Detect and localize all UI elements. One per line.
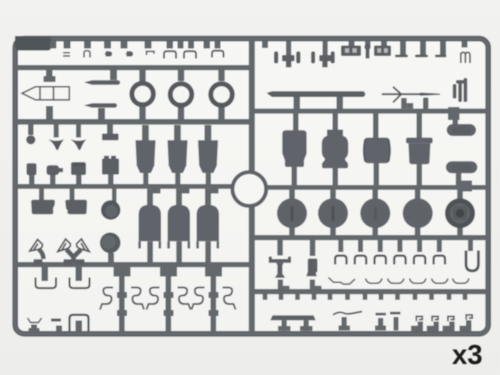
wheel stubs bottom	[289, 227, 295, 236]
upper bucket stubs	[142, 125, 149, 141]
stubs above rings	[139, 70, 145, 81]
stubs below barrel	[294, 97, 301, 110]
part: wye link	[67, 250, 82, 263]
part: flat bar	[102, 134, 119, 141]
part: pin-trio 2	[311, 51, 335, 67]
part: fuel tank B	[322, 130, 348, 169]
part: mud flap 2	[65, 200, 87, 214]
part: corner bracket	[147, 51, 155, 55]
part: blade 1	[84, 80, 120, 85]
rail6 right	[251, 289, 487, 294]
part: stowage box	[406, 138, 433, 144]
part: post pair	[453, 78, 467, 102]
part: hook clip 3	[448, 316, 454, 321]
part: drum	[364, 138, 390, 164]
part: long plank	[270, 315, 315, 320]
part: clamp 3	[212, 51, 224, 58]
part: bracket bird 3	[77, 239, 90, 252]
part: dot	[26, 135, 35, 144]
junction bosses on rail4 left	[152, 187, 161, 194]
part: road wheel small 1	[101, 200, 120, 219]
part: pillar	[308, 259, 318, 273]
rail3 left	[15, 119, 253, 125]
stub above chevron 2	[76, 124, 81, 138]
mini vertical rail 2	[166, 267, 172, 333]
part: u-shackle	[466, 250, 478, 270]
part: capsule 1	[447, 124, 476, 136]
part: fuel tank A	[282, 130, 306, 167]
part: hook clip 4	[466, 315, 472, 320]
part: small lug 1	[104, 51, 113, 56]
rail5 left	[15, 262, 253, 267]
part: gun barrel	[267, 91, 366, 97]
part: box 3	[71, 162, 86, 175]
part: track link 1	[341, 46, 361, 57]
gate stub with foot below rail2	[46, 70, 53, 77]
step blocks on bottom rail	[411, 322, 423, 332]
part: capsule 2	[446, 161, 477, 173]
clamp stubs	[338, 240, 473, 252]
feet under plank	[282, 320, 287, 331]
gate stubs from top rail (right)	[286, 41, 291, 57]
part: road wheel 1	[277, 198, 307, 228]
part: mud flap 1	[31, 200, 55, 214]
stub for pillar	[310, 240, 316, 256]
part: small lug 2	[125, 51, 134, 56]
part: ring 1	[132, 83, 154, 105]
wheel stubs top	[289, 190, 295, 200]
sprue outer frame	[15, 39, 488, 334]
stub below blade 2	[98, 108, 105, 120]
part: upper bucket 2	[168, 140, 188, 173]
part: bracket bird 1	[30, 240, 43, 252]
part: blade 2	[84, 103, 117, 107]
part: dash 2	[415, 55, 428, 58]
part: road wheel 4	[403, 198, 433, 228]
feet above rail6	[278, 280, 283, 291]
stub below capsule 2	[456, 173, 462, 187]
stub above bar part	[107, 124, 113, 134]
part: tiny box	[27, 163, 37, 175]
frame inner edge line	[15, 39, 488, 334]
part: box bracket	[70, 315, 89, 331]
gate stub below torpedo	[46, 106, 53, 120]
part: road wheel 3	[360, 198, 390, 228]
gate stubs below rail6	[263, 294, 468, 300]
part: pin-trio 1	[274, 51, 300, 67]
part: ball pin	[366, 47, 370, 59]
stub for tow bar	[277, 240, 283, 256]
rail2 left	[15, 65, 253, 70]
part: upper bucket 1	[136, 140, 156, 173]
part: ring 2	[170, 84, 192, 106]
mini rail knobs	[117, 292, 219, 316]
part: swept chevron 1	[48, 139, 64, 150]
stubs below rail3 right	[293, 113, 299, 131]
part: bird 1 foot	[39, 250, 44, 260]
mini rail bosses	[114, 267, 131, 277]
mini vertical rail 3	[211, 267, 217, 333]
part: upper bucket 3	[198, 140, 218, 173]
moulding label block top-left	[15, 36, 51, 51]
stub to capsule 1	[453, 112, 459, 125]
part: engine block	[104, 156, 109, 160]
part: small dash	[51, 319, 61, 322]
part: hook clip 1	[416, 316, 422, 321]
part: dash bar 1	[376, 313, 387, 316]
part: bracket bird 2	[58, 239, 71, 252]
part: torpedo outline	[22, 87, 69, 100]
mini vertical rail 1	[119, 267, 125, 333]
part: dash bar 2	[390, 312, 401, 315]
rail3 right	[251, 109, 487, 114]
upper bucket lower stubs	[143, 172, 148, 185]
part: rod with fins	[382, 87, 428, 103]
part: lower bucket 1	[139, 205, 161, 242]
lower bucket top stubs	[147, 189, 153, 206]
part: swept chevron 2	[71, 139, 87, 150]
stub above blade 1	[110, 70, 117, 80]
part: small tray	[28, 318, 42, 323]
bottom stubs on rail	[31, 325, 37, 332]
wheels bottom rail right	[251, 235, 487, 240]
boss on rail3R	[448, 107, 460, 120]
vertical divider rail	[249, 39, 255, 333]
sprue inner panel	[16, 39, 487, 333]
part: lower bucket 2	[168, 205, 190, 242]
part: thin trays row	[329, 278, 470, 285]
rail4 right	[267, 185, 487, 190]
part: bottle	[47, 165, 60, 175]
part: gull wing	[333, 312, 362, 315]
part: clamp row (6 clamps)	[335, 256, 445, 265]
part: dash 1	[395, 55, 408, 58]
part: dash 3	[435, 55, 447, 58]
part: road wheel 2	[318, 198, 348, 228]
part: clamp 2	[184, 51, 196, 58]
part: track link 2	[374, 46, 391, 57]
part: small n-hook	[84, 51, 90, 58]
rail4 left	[15, 184, 236, 189]
hook bracket 1 with stub	[42, 267, 49, 281]
part: drive wheel with hub	[445, 198, 475, 228]
svg-text:x3: x3	[452, 339, 483, 370]
sprue gate stubs from top rail	[50, 41, 57, 49]
part: ring 3	[211, 84, 233, 106]
part: road wheel small 2	[100, 233, 121, 254]
part: clamp 1	[164, 51, 176, 58]
part: m-bracket	[461, 52, 470, 63]
stubs below rings	[139, 106, 145, 120]
part: tow bar tee	[269, 259, 291, 263]
part: tiny equal-bars	[63, 52, 70, 54]
part: lower bucket 3	[197, 205, 219, 242]
rod pins	[401, 98, 406, 109]
stub above dot	[28, 124, 34, 135]
part: hook clip 2	[432, 316, 438, 321]
stubs below rail4 left	[39, 188, 44, 201]
central ring part	[232, 172, 266, 206]
hook bracket 2 with stub	[76, 267, 83, 281]
stub above chevron 1	[54, 124, 59, 138]
part: curly brackets (6)	[100, 288, 236, 310]
